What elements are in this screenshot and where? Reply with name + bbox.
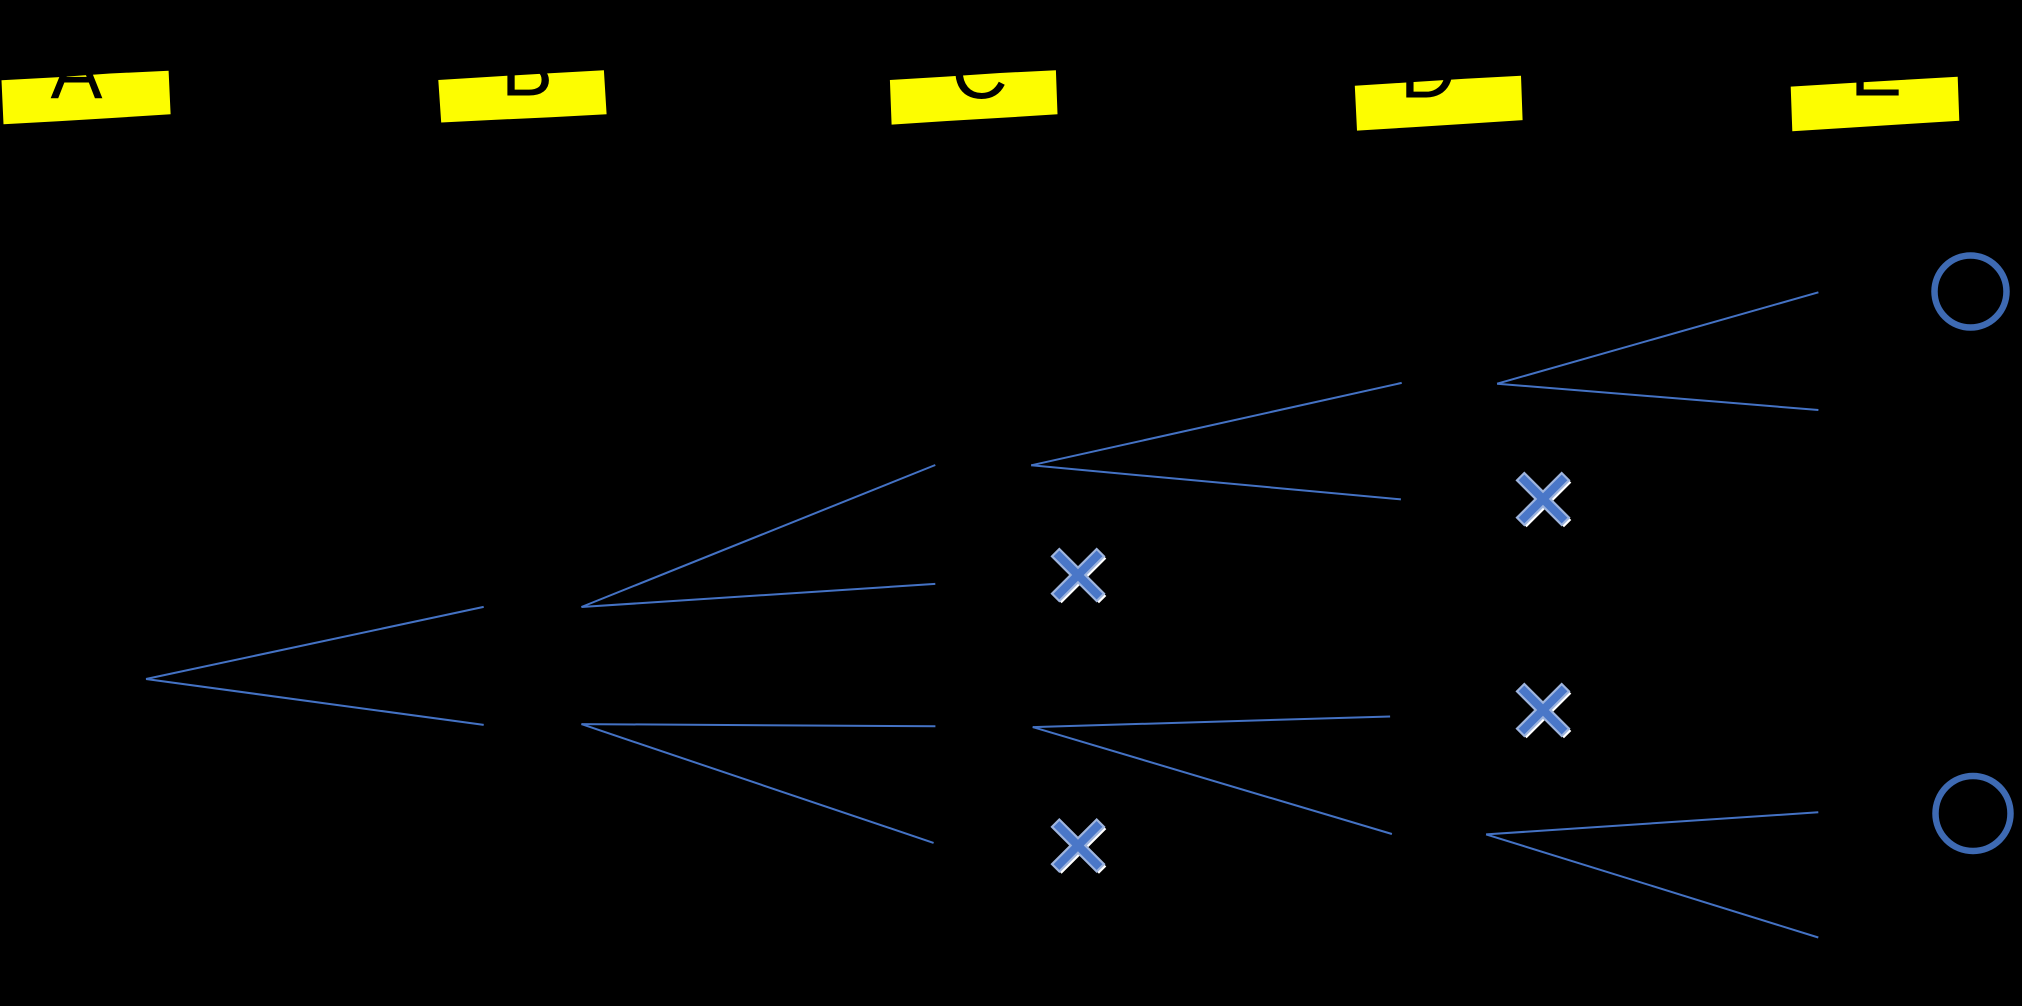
X mark X2 <box>1052 820 1106 874</box>
wire node C1 to node D1 <box>1031 383 1402 465</box>
highlight E <box>1791 77 1960 131</box>
highlight C <box>890 70 1058 124</box>
wire node C1 to X3 <box>1031 465 1401 499</box>
svg-text:C: C <box>951 27 1007 115</box>
wire root to node B1 <box>146 607 484 679</box>
wire node B1 to node C1 <box>581 465 935 607</box>
X mark X3 <box>1517 473 1571 527</box>
wire node B2 to node C2 <box>581 724 935 726</box>
svg-text:B: B <box>501 25 553 113</box>
svg-text:E: E <box>1850 25 1902 113</box>
highlight D <box>1355 76 1523 131</box>
wire node B1 to X1 <box>581 584 935 607</box>
circle O1 <box>1935 256 2007 328</box>
circle O2 <box>1936 776 2011 851</box>
X mark X4 <box>1517 684 1571 738</box>
wire node C2 to node D3 <box>1033 727 1392 834</box>
wire node D3 lower branch <box>1486 834 1818 937</box>
svg-text:D: D <box>1400 27 1456 115</box>
wire node D1 to circle O1 <box>1497 292 1818 383</box>
svg-text:A: A <box>50 27 102 115</box>
wire node C2 to X4 <box>1033 717 1390 728</box>
wire node D3 to circle O2 <box>1486 812 1818 834</box>
highlight A <box>2 71 171 124</box>
wire node D1 lower branch <box>1497 384 1818 410</box>
wire node B2 to X2 <box>581 724 933 843</box>
highlight B <box>438 70 606 122</box>
wire root to node B2 <box>146 679 484 725</box>
X mark X1 <box>1052 549 1106 603</box>
